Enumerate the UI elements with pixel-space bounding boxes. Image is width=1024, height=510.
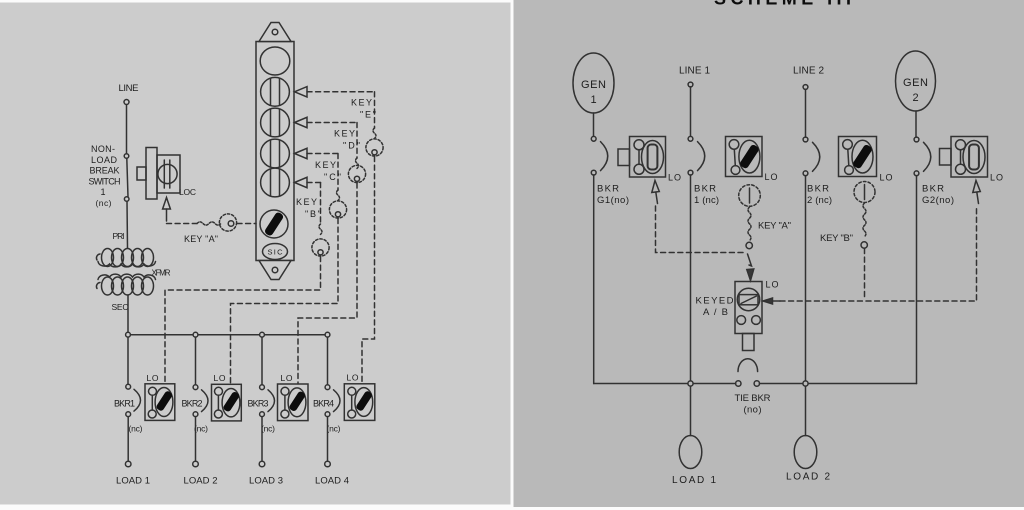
svg-text:A / B: A / B (703, 307, 728, 318)
label LO BKR G1 (668, 173, 681, 183)
svg-text:(nc): (nc) (327, 424, 341, 434)
svg-text:"E": "E" (360, 110, 376, 120)
label LO BKR G2 (990, 173, 1003, 183)
svg-text:(nc): (nc) (129, 424, 143, 434)
lock BKR3 (278, 384, 309, 421)
wire switch to PRI (126, 201, 129, 248)
dashed wire key C to BKR2 lock (231, 219, 339, 384)
svg-text:BREAK: BREAK (90, 166, 120, 176)
dashed wire key E to BKR4 lock (362, 157, 375, 384)
lock KEYED A/B (735, 282, 762, 351)
key A symbol (197, 214, 237, 231)
svg-text:BKR: BKR (597, 184, 619, 195)
svg-text:SWITCH: SWITCH (89, 176, 121, 186)
label LO BKR1 (147, 373, 159, 383)
label LO BKR4 (347, 373, 359, 383)
svg-text:LO: LO (880, 173, 893, 183)
svg-text:LOAD 4: LOAD 4 (315, 476, 349, 487)
svg-text:LOAD 1: LOAD 1 (672, 475, 716, 486)
dashed wire key B to KEYED A/B wire (864, 249, 866, 301)
label KEY "D" (334, 129, 360, 151)
bus wire (left panel) (128, 334, 328, 336)
node LOAD 2 terminal (193, 461, 199, 467)
node bus junction 1 (126, 332, 131, 337)
lock BKR G2 (940, 137, 988, 178)
clipped title text SCHEME III (714, 0, 852, 8)
svg-text:LINE: LINE (119, 83, 139, 94)
wire bus to BKR4 (327, 337, 329, 384)
tie breaker TIE BKR contacts (736, 359, 760, 386)
label (nc) BKR2 (194, 424, 208, 434)
svg-text:BKR4: BKR4 (313, 399, 334, 409)
label LOAD 4 (315, 476, 349, 487)
svg-text:G1(no): G1(no) (597, 195, 629, 206)
label KEY "A" (184, 234, 218, 244)
transformer XFMR secondary winding (96, 274, 155, 295)
svg-text:GEN: GEN (581, 79, 606, 91)
node: LINE terminal (124, 100, 129, 105)
load LOAD 1 circle (679, 436, 702, 469)
svg-text:KEY: KEY (334, 129, 355, 139)
label (nc) BKR3 (261, 424, 275, 434)
wire BKR G1 to bus (593, 175, 595, 384)
arrow up into LOC (163, 198, 171, 222)
breaker BKR 1 contacts (688, 136, 705, 175)
lock BKR1 (145, 384, 175, 421)
label NON-LOAD BREAK SWITCH 1 (nc) (89, 144, 121, 208)
left panel background (0, 3, 511, 505)
dashed wire cylinder 3 to key C (307, 154, 338, 191)
svg-text:LO: LO (766, 280, 779, 290)
label LOAD 3 (249, 476, 283, 487)
svg-text:LO: LO (281, 373, 293, 383)
svg-text:1 (nc): 1 (nc) (694, 195, 719, 206)
breaker BKR G2 contacts (914, 137, 931, 176)
interlock bank bottom tab (259, 261, 291, 280)
arrow into KEYED A/B right side (763, 298, 780, 304)
svg-text:SCHEME III: SCHEME III (714, 0, 852, 8)
svg-text:2 (nc): 2 (nc) (807, 195, 832, 206)
key D symbol (348, 158, 365, 183)
lock BKR 2 (839, 137, 877, 177)
label BKR 1 (nc) (694, 184, 719, 206)
svg-text:BKR: BKR (807, 184, 829, 195)
label LOAD 2 right (786, 472, 830, 483)
arrow into cylinder 1 (295, 87, 308, 97)
svg-text:BKR: BKR (694, 184, 716, 195)
node bus junction 2 (193, 332, 198, 337)
svg-text:LO: LO (347, 373, 359, 383)
label LOAD 1 (116, 476, 150, 487)
node LOAD 3 terminal (259, 461, 265, 467)
svg-text:(no): (no) (744, 405, 762, 416)
arrow into cylinder 3 (295, 148, 308, 158)
key C symbol (329, 190, 346, 218)
svg-text:G2(no): G2(no) (922, 195, 954, 206)
interlock bank cylinder 4 (261, 168, 290, 197)
svg-text:LINE 2: LINE 2 (793, 66, 824, 77)
label LO BKR3 (281, 373, 293, 383)
interlock bank cylinder 2 (261, 108, 290, 137)
breaker BKR1 contacts (126, 384, 141, 416)
wire bus to BKR2 (195, 337, 197, 384)
interlock bank body (256, 42, 294, 261)
label (nc) BKR4 (327, 424, 341, 434)
svg-text:LO: LO (990, 173, 1003, 183)
breaker BKR G1 contacts (591, 136, 607, 175)
wire BKR2 to LOAD 2 (195, 417, 197, 462)
lock BKR2 (212, 384, 242, 421)
svg-text:LO: LO (668, 173, 681, 183)
svg-text:"B": "B" (305, 209, 321, 219)
svg-text:LO: LO (214, 373, 226, 383)
right panel background (514, 0, 1024, 507)
dashed wire BKR G1 lock to KEYED A/B (656, 206, 746, 253)
svg-text:BKR1: BKR1 (114, 399, 135, 409)
label LINE 2 (793, 66, 824, 77)
label BKR G2(no) (922, 184, 954, 206)
dashed wire key A right segment (237, 223, 256, 225)
svg-text:SEC: SEC (112, 302, 129, 312)
svg-text:"D": "D" (343, 141, 360, 151)
wire LINE 1 to BKR 1 (690, 87, 692, 136)
generator GEN 2 (896, 51, 936, 111)
label BKR G1(no) (597, 184, 629, 206)
svg-text:LOAD 1: LOAD 1 (116, 476, 150, 487)
wire BKR4 to LOAD 4 (327, 417, 329, 462)
svg-text:BKR: BKR (922, 184, 944, 195)
interlock bank top tab (259, 23, 291, 42)
svg-text:KEY "A": KEY "A" (184, 234, 218, 244)
label LO KEYED A/B (766, 280, 779, 290)
label KEY "A" right (758, 221, 791, 232)
interlock bank locked cylinder (260, 210, 288, 238)
svg-text:KEY "B": KEY "B" (820, 233, 853, 244)
svg-text:LOAD 3: LOAD 3 (249, 476, 283, 487)
node bus junction LOAD 2 (803, 381, 808, 386)
dashed wire cylinder 2 to key D (307, 123, 357, 159)
interlock bank SIC label oval (263, 244, 288, 260)
wire GEN 2 to BKR G2 (915, 111, 917, 137)
svg-text:KEY: KEY (315, 160, 336, 170)
key A symbol (dashed) (739, 185, 761, 249)
wire bus to BKR1 (127, 337, 129, 384)
wire BKR G2 to bus (916, 176, 918, 384)
dashed wire cylinder 4 to key B (307, 183, 321, 225)
arrow up into BKR G2 lock (973, 181, 981, 204)
dashed wire key B to BKR1 lock (165, 257, 321, 384)
wire BKR1 to LOAD 1 (127, 417, 129, 462)
lock BKR 1 (726, 137, 763, 177)
wire LINE 2 to BKR 2 (805, 90, 807, 138)
dashed wire KEYED A/B to BKR G2 lock (780, 206, 977, 301)
node LOAD 1 terminal (125, 461, 131, 467)
label TIE BKR (no) (735, 393, 771, 416)
label PRI (113, 231, 125, 241)
node bus junction 3 (260, 332, 265, 337)
label LO BKR 1 (765, 172, 778, 182)
breaker BKR4 contacts (325, 385, 340, 417)
label BKR3 (248, 399, 269, 409)
label LINE (119, 83, 139, 94)
interlock bank blank cylinder (260, 47, 290, 75)
svg-text:1: 1 (590, 94, 596, 106)
svg-text:KEY: KEY (351, 98, 372, 108)
svg-text:LOAD 2: LOAD 2 (184, 476, 218, 487)
node LINE 1 terminal (688, 82, 693, 87)
bus wire left segment (right panel) (594, 383, 736, 385)
key B symbol (312, 224, 329, 256)
dashed wire key A left segment (167, 223, 198, 225)
label XFMR (152, 269, 171, 278)
dashed wire cylinder 1 to key E (307, 92, 375, 128)
breaker BKR3 contacts (260, 385, 275, 417)
key E symbol (366, 128, 383, 156)
svg-text:(nc): (nc) (261, 424, 275, 434)
wire GEN 1 to BKR G1 (593, 113, 595, 136)
svg-text:1: 1 (100, 187, 105, 197)
label LOAD 2 (184, 476, 218, 487)
dashed wire key D to BKR3 lock (298, 183, 357, 383)
svg-text:LOAD 2: LOAD 2 (786, 472, 830, 483)
wire LINE down to switch (126, 105, 128, 154)
non-load break switch SW1 contacts (124, 154, 129, 202)
label BKR1 (114, 399, 135, 409)
lock LOC on switch (137, 148, 180, 200)
label KEY "C" (315, 160, 341, 182)
label LO BKR 2 (880, 173, 893, 183)
svg-text:KEY: KEY (296, 197, 317, 207)
svg-text:TIE BKR: TIE BKR (735, 393, 771, 404)
label KEY "E" (351, 98, 376, 120)
svg-text:LO: LO (765, 172, 778, 182)
load LOAD 2 circle (794, 436, 817, 469)
label SEC (112, 302, 129, 312)
arrow into cylinder 2 (295, 117, 308, 127)
label LOC (179, 187, 196, 197)
label KEY "B" right (820, 233, 853, 244)
breaker BKR 2 contacts (803, 137, 820, 176)
label BKR4 (313, 399, 334, 409)
transformer XFMR primary winding (96, 249, 155, 267)
RIGHT PANEL (573, 0, 1003, 486)
label LOAD 1 right (672, 475, 716, 486)
bus wire right segment (right panel) (760, 383, 917, 385)
label BKR 2 (nc) (807, 184, 832, 206)
wire bus to BKR3 (261, 337, 263, 384)
svg-text:PRI: PRI (113, 231, 125, 241)
svg-text:LOC: LOC (179, 187, 196, 197)
svg-text:BKR3: BKR3 (248, 399, 269, 409)
svg-text:2: 2 (912, 92, 918, 104)
arrow into cylinder 4 (295, 177, 308, 187)
svg-text:SIC: SIC (268, 248, 284, 257)
svg-text:(nc): (nc) (96, 198, 112, 208)
lock BKR4 (344, 384, 375, 421)
node LINE 2 terminal (803, 85, 808, 90)
node bus junction LOAD 1 (688, 381, 693, 386)
breaker BKR2 contacts (193, 385, 208, 417)
label KEY "B" (296, 197, 321, 219)
interlock bank cylinder 1 (261, 77, 290, 106)
svg-text:LINE 1: LINE 1 (679, 66, 710, 77)
generator GEN 1 (573, 53, 614, 113)
label LO BKR2 (214, 373, 226, 383)
wire BKR 2 through bus to LOAD 2 (805, 176, 807, 436)
svg-text:BKR2: BKR2 (182, 399, 203, 409)
lock BKR G1 (618, 137, 666, 178)
key B symbol (dashed) (854, 182, 875, 249)
svg-text:KEYED: KEYED (696, 296, 734, 307)
label LINE 1 (679, 66, 710, 77)
wire BKR 1 through bus to LOAD 1 (690, 175, 692, 436)
svg-text:KEY "A": KEY "A" (758, 221, 791, 232)
interlock bank cylinder 3 (261, 139, 290, 168)
svg-text:LOAD: LOAD (91, 155, 118, 165)
node LOAD 4 terminal (325, 461, 331, 467)
label KEYED A/B (696, 296, 734, 319)
svg-text:"C": "C" (324, 172, 341, 182)
label (nc) BKR1 (129, 424, 143, 434)
wire BKR3 to LOAD 3 (261, 417, 263, 462)
svg-text:GEN: GEN (903, 77, 928, 89)
svg-text:NON-: NON- (91, 144, 115, 154)
svg-text:LO: LO (147, 373, 159, 383)
LEFT PANEL (89, 23, 384, 487)
arrow key A into KEYED A/B (747, 254, 754, 281)
node bus junction 4 (325, 332, 330, 337)
arrow up into BKR G1 lock (652, 181, 660, 204)
wire SEC to bus (127, 295, 129, 333)
label BKR2 (182, 399, 203, 409)
